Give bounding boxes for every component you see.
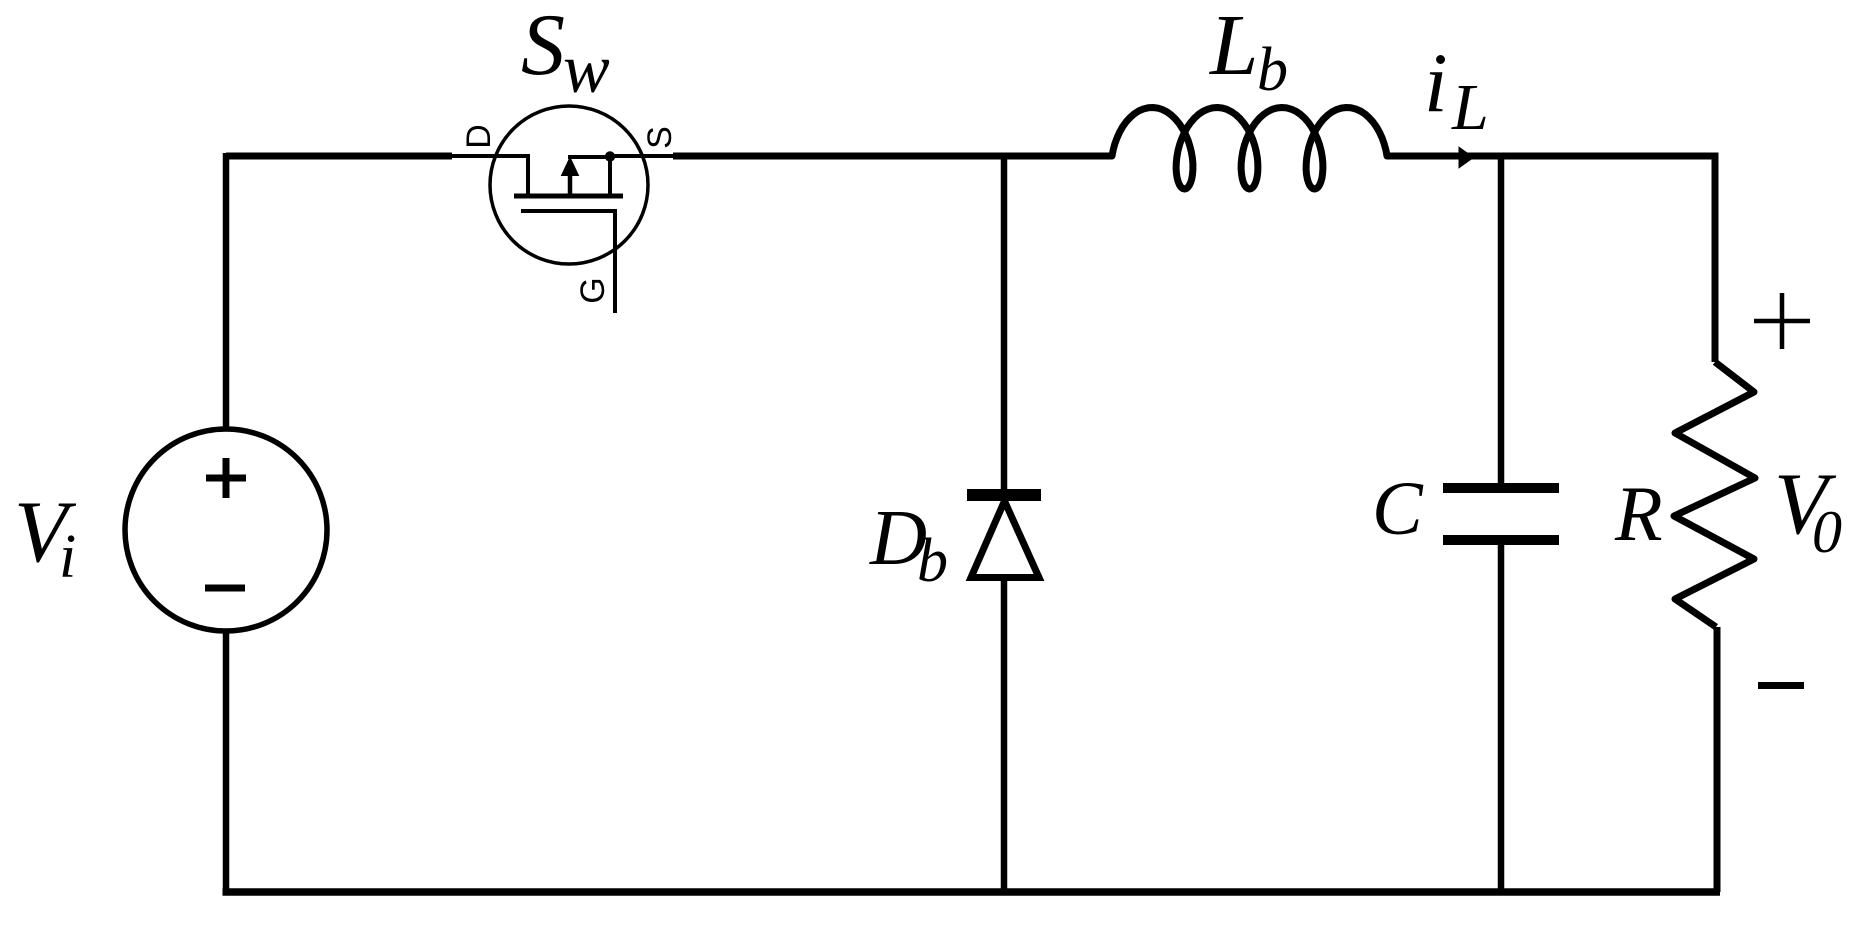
junction dot at Sw source	[605, 151, 615, 161]
svg-text:R: R	[1614, 470, 1663, 557]
wire top-left horizontal	[226, 153, 452, 160]
transistor Sw source link	[568, 157, 610, 196]
svg-text:G: G	[574, 277, 612, 303]
wire capacitor branch upper	[1498, 156, 1505, 484]
diode D_b cathode bar	[967, 489, 1041, 501]
transistor Sw gate plate and gate lead	[521, 211, 615, 313]
wire right vertical lower	[1714, 627, 1721, 892]
plus sign inside source	[206, 458, 246, 498]
wire capacitor branch lower	[1498, 545, 1505, 892]
diode D_b triangle	[971, 501, 1039, 578]
transistor Sw body arrowhead	[561, 156, 580, 176]
transistor Sw body circle	[490, 106, 648, 264]
wire bottom horizontal	[223, 888, 1721, 896]
svg-text:Lb: Lb	[1208, 0, 1288, 104]
current arrowhead i_L	[1459, 146, 1475, 168]
svg-text:V0: V0	[1774, 456, 1842, 565]
wire left vertical	[223, 153, 230, 429]
voltage source V_i circle	[125, 429, 327, 631]
svg-text:C: C	[1372, 467, 1424, 551]
minus sign inside source	[205, 585, 245, 592]
wire right vertical upper	[1712, 153, 1719, 363]
svg-text:iL: iL	[1424, 36, 1489, 144]
plus sign output	[1754, 293, 1810, 349]
inductor L_b coil	[1112, 108, 1387, 190]
minus sign output	[1758, 682, 1804, 689]
wire diode branch lower	[1001, 578, 1008, 892]
wire diode branch upper	[1001, 156, 1008, 490]
capacitor C top plate	[1443, 483, 1559, 493]
transistor Sw body arrow shaft	[568, 170, 573, 196]
svg-text:D: D	[460, 124, 498, 149]
svg-text:Sw: Sw	[521, 0, 610, 108]
transistor Sw source lead	[610, 154, 673, 158]
transistor Sw drain lead	[452, 156, 528, 194]
svg-text:S: S	[641, 126, 679, 149]
resistor R zigzag	[1674, 362, 1755, 627]
svg-text:Vi: Vi	[14, 484, 77, 591]
wire top middle horizontal	[673, 153, 1112, 160]
capacitor C bottom plate	[1443, 535, 1559, 545]
transistor Sw channel bar	[514, 194, 623, 199]
svg-text:Db: Db	[869, 495, 948, 595]
wire top right horizontal	[1387, 153, 1715, 160]
wire left vertical lower	[223, 631, 230, 892]
